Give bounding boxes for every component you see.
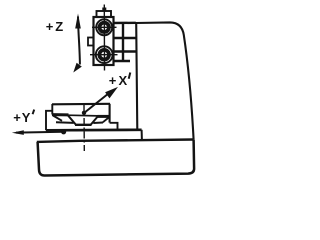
X' arrow shaft bbox=[84, 92, 111, 114]
X' prime mark bbox=[129, 73, 131, 79]
saddle top left segment bbox=[56, 121, 74, 124]
upper pulley outer circle bbox=[96, 19, 112, 35]
left tab bbox=[88, 38, 94, 46]
base outline bbox=[38, 140, 195, 176]
head centerline bbox=[103, 5, 105, 71]
Y' arrow dot bbox=[61, 129, 66, 134]
spindle head body bbox=[94, 17, 114, 65]
lower pulley outer circle bbox=[96, 46, 113, 63]
base top line bbox=[37, 140, 194, 142]
Z-axis arrowhead up bbox=[75, 14, 81, 29]
Z-axis arrow shaft bbox=[78, 17, 80, 65]
Z-axis arrowhead down bbox=[73, 63, 82, 73]
dovetail right end diagonal bbox=[103, 117, 110, 123]
lower pulley crosshair bbox=[90, 54, 118, 56]
bracket divider bbox=[122, 23, 124, 61]
table right edge bbox=[109, 104, 111, 123]
dovetail upper-right bar bbox=[98, 115, 110, 118]
X' arrow start dot bbox=[82, 111, 86, 115]
table right foot line bbox=[110, 123, 118, 130]
Y' arrowhead bbox=[12, 130, 24, 135]
bracket mid line 2 bbox=[114, 50, 136, 52]
spindle head knob bbox=[102, 8, 106, 12]
upper pulley crosshair bbox=[92, 26, 117, 28]
column step vertical bbox=[141, 130, 143, 140]
bracket mid line 1 bbox=[114, 37, 136, 39]
svg-text:+X: +X bbox=[109, 73, 130, 88]
saddle bottom line bbox=[46, 128, 142, 131]
spindle head cap bbox=[97, 11, 112, 17]
upper pulley inner ring bbox=[100, 23, 109, 32]
dovetail groove bottom bbox=[75, 124, 92, 126]
dovetail groove right side bbox=[91, 116, 98, 124]
table centerline bbox=[83, 105, 85, 152]
Y' arrow shaft bbox=[16, 131, 64, 134]
dovetail left end diagonal bbox=[53, 116, 62, 121]
saddle top right segment bbox=[93, 122, 103, 125]
lower slide left box bbox=[46, 111, 53, 131]
dovetail groove left side bbox=[68, 115, 76, 124]
svg-text:+Y: +Y bbox=[13, 110, 31, 125]
bracket top edge bbox=[114, 22, 136, 25]
table left edge bbox=[51, 104, 53, 115]
bracket bottom edge bbox=[114, 60, 131, 62]
Y' prime mark bbox=[33, 110, 35, 115]
dovetail groove top line bbox=[68, 114, 99, 117]
dovetail upper-left bar bbox=[52, 113, 69, 116]
X' arrowhead bbox=[105, 87, 118, 99]
lower pulley inner ring bbox=[99, 50, 109, 60]
svg-text:+Z: +Z bbox=[46, 19, 66, 34]
column outline bbox=[136, 22, 193, 139]
table top edge bbox=[52, 103, 110, 106]
